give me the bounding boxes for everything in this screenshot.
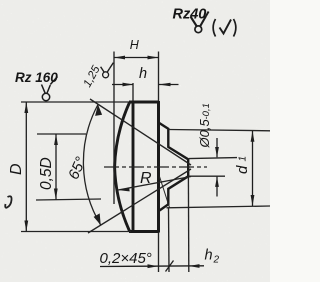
svg-text:Rz40: Rz40 (173, 7, 207, 23)
svg-text:2: 2 (213, 255, 220, 266)
svg-text:-0,1: -0,1 (201, 103, 212, 119)
svg-text:Rz 160: Rz 160 (15, 70, 58, 85)
svg-text:h: h (205, 248, 213, 264)
svg-text:0,5D: 0,5D (38, 157, 55, 190)
svg-text:D: D (8, 163, 25, 175)
svg-text:d: d (234, 165, 251, 174)
svg-text:h: h (139, 66, 147, 82)
svg-text:Ø0,5: Ø0,5 (197, 119, 212, 149)
svg-text:1: 1 (238, 156, 249, 162)
svg-text:H: H (130, 38, 140, 52)
svg-text:0,2×45°: 0,2×45° (100, 250, 152, 267)
svg-text:R: R (140, 170, 152, 187)
